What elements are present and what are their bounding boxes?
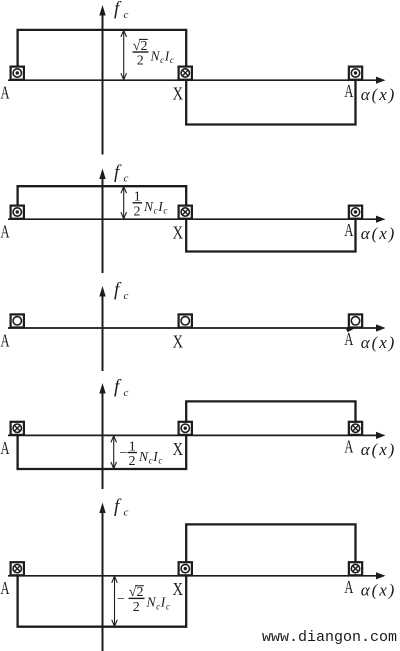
svg-text:N: N [146, 595, 157, 610]
svg-text:X: X [173, 579, 183, 599]
svg-text:c: c [160, 55, 164, 65]
svg-text:−: − [120, 446, 128, 461]
svg-text:A: A [1, 330, 10, 350]
svg-text:c: c [156, 601, 160, 611]
svg-text:A: A [344, 220, 353, 240]
svg-text:X: X [173, 331, 183, 351]
svg-text:N: N [143, 199, 154, 214]
svg-text:c: c [124, 290, 129, 302]
svg-text:A: A [344, 577, 353, 597]
svg-text:A: A [1, 578, 10, 598]
svg-text:2: 2 [129, 454, 136, 469]
svg-text:c: c [124, 173, 129, 185]
svg-text:2: 2 [134, 204, 141, 219]
svg-text:c: c [170, 55, 174, 65]
svg-text:−: − [117, 592, 125, 607]
svg-text:2: 2 [133, 600, 140, 615]
svg-text:A: A [344, 436, 353, 456]
svg-text:A: A [1, 222, 10, 242]
svg-text:c: c [166, 601, 170, 611]
svg-text:c: c [158, 455, 162, 465]
svg-text:X: X [173, 84, 183, 104]
svg-text:c: c [124, 507, 129, 519]
svg-text:A: A [344, 329, 353, 349]
svg-text:c: c [154, 206, 158, 216]
svg-text:A: A [344, 81, 353, 101]
svg-text:c: c [124, 9, 129, 21]
svg-text:A: A [1, 83, 10, 103]
svg-text:N: N [150, 48, 161, 63]
svg-text:X: X [173, 223, 183, 243]
svg-text:c: c [149, 455, 153, 465]
svg-text:2: 2 [137, 54, 144, 69]
svg-text:X: X [173, 439, 183, 459]
svg-text:A: A [1, 438, 10, 458]
svg-text:c: c [163, 206, 167, 216]
svg-text:N: N [138, 449, 149, 464]
svg-text:www.diangon.com: www.diangon.com [262, 629, 397, 646]
svg-text:c: c [124, 387, 129, 399]
